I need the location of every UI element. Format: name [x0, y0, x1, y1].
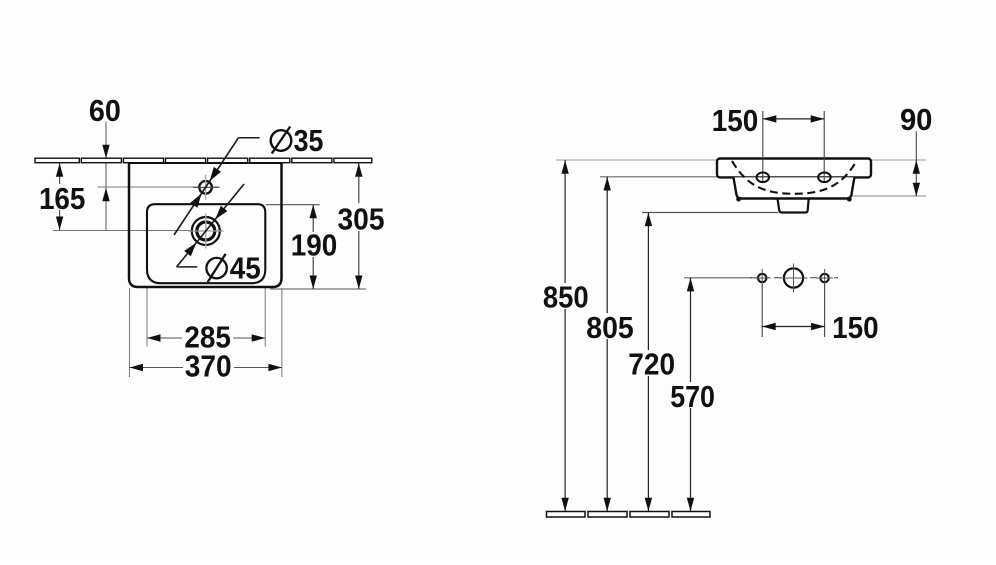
svg-text:60: 60 [89, 93, 121, 128]
arrow 150top right [811, 115, 825, 122]
arrow dim190 down [310, 276, 317, 290]
arrow 805 up [604, 177, 611, 191]
dim 165 shaft [59, 163, 61, 230]
svg-text:165: 165 [39, 181, 86, 216]
arrow 720 up [645, 213, 652, 227]
dim 150 top extension lines [762, 111, 764, 182]
Ø45 arrow upper [215, 206, 227, 220]
text white backings left view [38, 184, 386, 378]
mounting hole cross ticks [754, 264, 833, 293]
arrow dim370 left [130, 364, 144, 371]
deck hole right [818, 173, 831, 183]
svg-text:150: 150 [712, 103, 759, 138]
tap hole Ø35 [199, 181, 212, 194]
dim 60 shaft [105, 122, 107, 231]
drain Ø45 [192, 217, 220, 245]
svg-text:570: 570 [670, 379, 715, 414]
arrow 720 down [645, 498, 652, 512]
arrow dim305 down [355, 276, 362, 290]
arrow dim370 right [268, 364, 282, 371]
arrow 570 up [687, 278, 694, 292]
mounting holes dashed centerline [750, 277, 838, 279]
arrow 570 down [687, 498, 694, 512]
arrow dim165 up [56, 163, 63, 177]
text white backings right view [541, 283, 717, 408]
dashed bowl profile [732, 161, 857, 194]
svg-text:150: 150 [832, 310, 879, 345]
svg-text:370: 370 [185, 349, 232, 384]
720 ref line [642, 212, 778, 214]
dim 190 shaft [312, 205, 314, 289]
dim 285 extension lines [146, 288, 148, 347]
90 bottom ref line [845, 195, 927, 197]
dim 720 shaft [647, 213, 649, 512]
svg-text:90: 90 [900, 102, 933, 137]
basin rim (side) [717, 159, 871, 178]
Ø symbol of Ø35 [271, 130, 292, 151]
dim 570 shaft [690, 278, 692, 512]
arrow 805 down [604, 498, 611, 512]
dim 305 shaft [358, 163, 360, 289]
Ø45 leader underline [177, 266, 198, 268]
arrow dim60 up [102, 188, 109, 202]
arrow 90 up [913, 160, 920, 174]
tap hole cross ticks [193, 186, 219, 188]
mounting hole right [820, 274, 828, 282]
mounting hole middle [784, 268, 803, 287]
inner bowl (plan) [147, 204, 265, 283]
svg-text:305: 305 [338, 202, 385, 237]
dim 150 bottom line [762, 326, 824, 328]
basin outline (plan) [129, 163, 282, 287]
dim 850 shaft [564, 160, 566, 511]
drain spigot [778, 198, 809, 212]
arrow dim60 down [102, 145, 109, 159]
dim 150 top line [763, 118, 824, 120]
arrow 150bot right [811, 323, 825, 330]
Ø symbol of Ø45 [206, 258, 226, 278]
805 ref line [600, 176, 734, 178]
570 ref line [684, 277, 752, 279]
arrow 850 up [561, 160, 568, 174]
arrow 90 down [913, 183, 920, 197]
arrow dim285 left [147, 334, 161, 341]
body feet [736, 197, 741, 202]
Ø35 dimension diagonal [174, 138, 239, 235]
dim 285 line [147, 337, 265, 339]
svg-text:35: 35 [294, 123, 324, 158]
bottom ref line for 305/190 [270, 288, 366, 290]
top level ref line [556, 159, 926, 161]
arrow 150top left [763, 115, 777, 122]
deck hole left [757, 173, 770, 183]
Ø45 arrow lower [184, 243, 196, 257]
arrow dim165 down [56, 217, 63, 231]
Ø35 arrow upper [210, 167, 221, 181]
basin top edge [129, 162, 282, 164]
dim 90 shaft [915, 131, 917, 196]
arrow dim190 up [310, 205, 317, 219]
mounting hole left [758, 274, 766, 282]
dim 370 line [130, 367, 282, 369]
arrow 850 down [561, 498, 568, 512]
dim 150 bottom extension lines [761, 284, 763, 337]
dim 805 shaft [606, 177, 608, 512]
basin body (side) [734, 177, 855, 198]
svg-text:720: 720 [628, 347, 675, 382]
Ø35 arrow lower [190, 194, 201, 208]
Ø45 dimension diagonal [177, 184, 244, 267]
drain cross ticks [188, 230, 224, 232]
floor tile line [547, 512, 711, 518]
svg-text:45: 45 [230, 250, 261, 285]
drain centerline [53, 230, 222, 232]
svg-text:190: 190 [291, 228, 338, 263]
Ø35 leader underline [239, 137, 260, 139]
dim 190 ref line [265, 204, 319, 206]
svg-text:850: 850 [543, 280, 589, 315]
arrow 150bot left [762, 323, 776, 330]
tap hole centerline [98, 186, 221, 188]
arrow dim285 right [252, 334, 266, 341]
svg-text:805: 805 [586, 310, 634, 345]
wall tile line (plan) [35, 158, 372, 163]
arrow dim305 up [355, 163, 362, 177]
dim 370 extension lines [129, 288, 131, 377]
